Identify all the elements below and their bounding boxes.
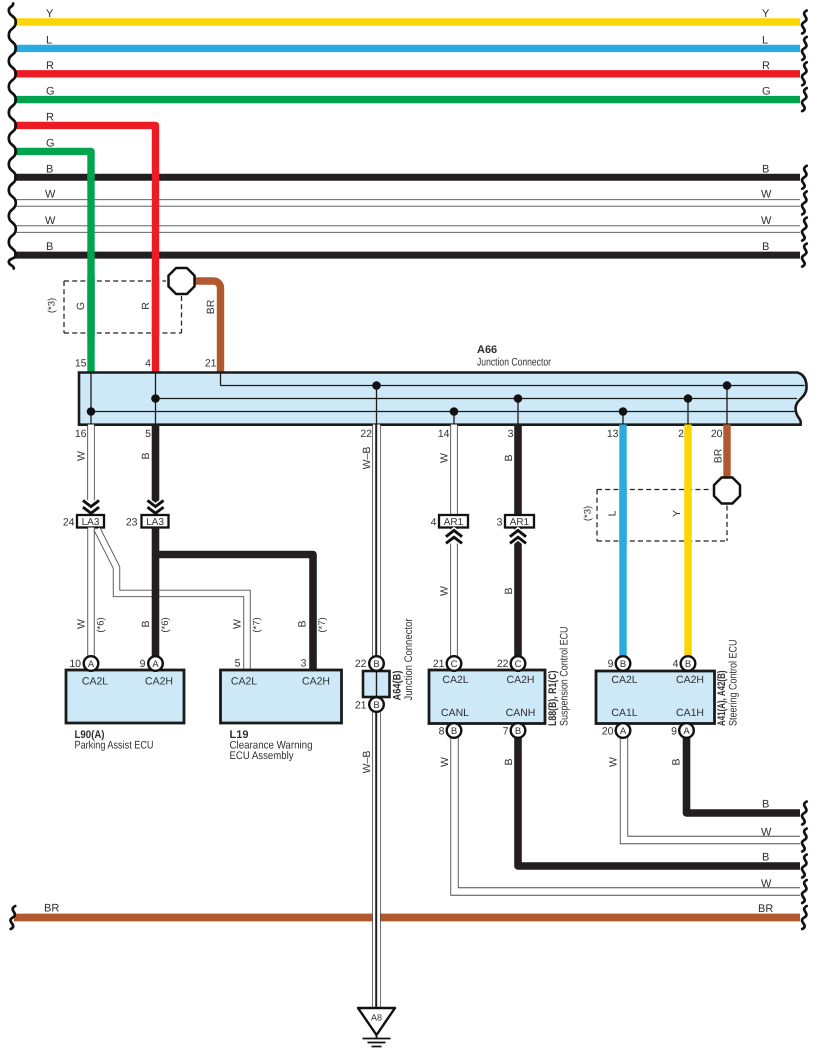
svg-text:B: B	[503, 454, 515, 461]
dashed box (*3) left	[64, 281, 182, 333]
wire Y over dashed box	[684, 486, 691, 545]
svg-text:B: B	[373, 700, 379, 711]
svg-text:A: A	[683, 726, 690, 737]
svg-text:20: 20	[711, 428, 723, 440]
svg-text:21: 21	[355, 700, 367, 712]
svg-text:ECU Assembly: ECU Assembly	[230, 750, 294, 762]
torn end B right	[802, 802, 807, 825]
pin circle 8 B	[447, 723, 462, 738]
svg-text:L88(B), R1(C): L88(B), R1(C)	[547, 670, 559, 726]
svg-text:G: G	[75, 302, 87, 310]
svg-text:Y: Y	[46, 8, 54, 20]
A66 internal bus line 2	[156, 398, 798, 400]
svg-text:BR: BR	[205, 299, 217, 314]
svg-text:CA1H: CA1H	[676, 707, 704, 719]
svg-text:4: 4	[145, 358, 151, 370]
wire B bus (upper)	[14, 174, 800, 181]
wire G to junction pin 15	[14, 151, 91, 374]
svg-text:G: G	[46, 137, 55, 149]
A66 stub pin 15/16	[90, 373, 92, 424]
svg-text:23: 23	[126, 517, 138, 529]
svg-text:C: C	[451, 659, 458, 670]
svg-text:Y: Y	[762, 8, 770, 20]
wire G bus	[14, 96, 800, 103]
svg-text:W: W	[439, 453, 451, 463]
svg-text:A: A	[88, 659, 95, 670]
svg-text:(*3): (*3)	[583, 506, 594, 521]
svg-text:4: 4	[431, 517, 437, 529]
svg-text:BR: BR	[44, 903, 59, 915]
junction dot 2	[684, 394, 693, 403]
torn end W right	[802, 829, 807, 852]
svg-text:L: L	[46, 34, 52, 46]
wire W steering pin20 to right	[624, 737, 800, 840]
svg-text:W: W	[76, 451, 88, 461]
svg-text:(*7): (*7)	[317, 617, 328, 632]
svg-text:9: 9	[671, 726, 677, 738]
svg-text:CA2H: CA2H	[302, 676, 330, 688]
svg-text:B: B	[46, 163, 53, 175]
svg-text:B: B	[297, 620, 309, 627]
connector LA3 (23)	[142, 515, 169, 528]
wire B bus (lower)	[14, 252, 800, 259]
pin circle 22 B (A64)	[369, 656, 384, 671]
svg-text:20: 20	[602, 726, 614, 738]
svg-text:3: 3	[497, 517, 503, 529]
svg-text:B: B	[140, 452, 152, 459]
junction dot 20	[723, 381, 732, 390]
ground symbol A8	[358, 1008, 395, 1035]
svg-text:B: B	[503, 587, 515, 594]
svg-text:2: 2	[678, 428, 684, 440]
svg-text:CA2L: CA2L	[442, 674, 468, 686]
svg-text:R: R	[46, 111, 54, 123]
connector AR1 (4)	[439, 515, 468, 528]
ECU box L19	[221, 670, 342, 723]
pin circle 21 C	[447, 656, 462, 671]
svg-text:W: W	[76, 619, 88, 629]
wire R bus	[14, 70, 800, 77]
ECU box L90(A)	[66, 670, 184, 723]
wire BR pin20 to noise filter 2	[723, 425, 730, 478]
svg-text:CA2L: CA2L	[611, 674, 637, 686]
svg-text:7: 7	[503, 726, 509, 738]
A66 stub pin 21	[220, 373, 222, 386]
svg-text:CA2H: CA2H	[145, 676, 173, 688]
wire R over dashed box	[152, 277, 159, 337]
chevrons below AR1 4	[447, 531, 461, 543]
svg-text:B: B	[762, 163, 769, 175]
svg-text:L: L	[607, 510, 619, 516]
junction dot 4/5	[151, 394, 160, 403]
svg-text:A: A	[152, 659, 159, 670]
torn end G right	[802, 88, 807, 111]
svg-text:W: W	[232, 619, 244, 629]
svg-text:9: 9	[140, 658, 146, 670]
svg-text:CANL: CANL	[441, 707, 469, 719]
A66 internal bus line 3	[91, 411, 796, 413]
wire W bus (lower)	[14, 225, 800, 232]
junction dot 3	[514, 394, 523, 403]
svg-text:BR: BR	[713, 448, 725, 463]
svg-text:CA2H: CA2H	[676, 674, 704, 686]
svg-text:B: B	[503, 758, 515, 765]
wire W-B pin22 to A64(B)	[372, 425, 381, 658]
junction dot 13	[619, 407, 628, 416]
wire Y pin2 to steering ECU	[684, 425, 691, 658]
A66 stub pin 2	[687, 399, 689, 425]
wire W LA3(24) to L90 pin 10	[87, 528, 94, 658]
svg-text:(*3): (*3)	[47, 298, 58, 313]
torn end L right	[802, 37, 807, 60]
svg-text:CA2H: CA2H	[506, 674, 534, 686]
svg-text:A: A	[620, 726, 627, 737]
svg-text:W: W	[761, 827, 772, 839]
svg-text:21: 21	[433, 658, 445, 670]
junction connector A64(B) box	[363, 671, 390, 697]
connector AR1 (3)	[505, 515, 534, 528]
pin circle 7 B	[511, 723, 526, 738]
svg-text:A64(B): A64(B)	[392, 670, 404, 700]
svg-text:W: W	[761, 878, 772, 890]
svg-text:4: 4	[673, 658, 679, 670]
svg-text:9: 9	[608, 658, 614, 670]
pin circle 4 B (steer top)	[681, 656, 696, 671]
svg-text:(*7): (*7)	[252, 617, 263, 632]
svg-text:W–B: W–B	[361, 447, 373, 470]
svg-text:5: 5	[235, 658, 241, 670]
svg-text:R: R	[140, 302, 152, 310]
wire Y bus (top)	[14, 18, 800, 25]
svg-text:AR1: AR1	[444, 517, 464, 528]
wire W suspension pin8 to right	[455, 737, 801, 892]
wire L over dashed box	[619, 486, 626, 545]
ECU box A41(A) A42(B)	[596, 671, 715, 724]
A66 stub pin 13	[622, 412, 624, 425]
svg-text:21: 21	[205, 358, 217, 370]
svg-text:8: 8	[439, 726, 445, 738]
svg-text:A41(A), A42(B): A41(A), A42(B)	[716, 670, 728, 726]
svg-text:CA2L: CA2L	[82, 676, 108, 688]
svg-text:W: W	[439, 586, 451, 596]
svg-text:16: 16	[75, 428, 87, 440]
svg-text:(*6): (*6)	[160, 617, 171, 632]
svg-text:13: 13	[607, 428, 619, 440]
torn end R right	[802, 62, 807, 85]
A66 stub pin 22	[376, 386, 378, 425]
wire G over dashed box	[87, 277, 94, 337]
svg-text:Junction Connector: Junction Connector	[403, 618, 415, 700]
svg-text:15: 15	[75, 358, 87, 370]
svg-text:B: B	[46, 241, 53, 253]
chevrons above LA3 23	[149, 501, 163, 513]
wire B LA3(23) to L90 pin 9	[152, 528, 160, 658]
A66 internal bus line 1	[221, 385, 805, 387]
connector LA3 (24)	[77, 515, 104, 528]
torn end B2 right	[802, 244, 807, 267]
svg-text:22: 22	[497, 658, 509, 670]
svg-text:B: B	[671, 758, 683, 765]
chevrons above LA3 24	[84, 501, 98, 513]
svg-text:24: 24	[63, 517, 75, 529]
wire B pin5 to LA3(23)	[152, 425, 160, 516]
torn end BR left	[10, 906, 15, 929]
wire L pin13 to steering ECU	[619, 425, 626, 658]
wire L bus	[14, 45, 800, 52]
svg-text:A8: A8	[371, 1013, 382, 1023]
junction connector A66 body	[79, 373, 807, 425]
torn end wave left (all top buses)	[9, 4, 16, 269]
dashed box (*3) right	[597, 490, 727, 542]
svg-text:3: 3	[301, 658, 307, 670]
svg-text:W: W	[608, 757, 620, 767]
wire BR from noise filter to junction pin 21	[194, 281, 221, 374]
wire W bus (upper)	[14, 199, 800, 206]
chevrons below AR1 3	[511, 531, 525, 543]
noise filter octagon 1	[169, 268, 195, 294]
svg-text:B: B	[140, 620, 152, 627]
torn end W2 right	[802, 880, 807, 903]
svg-text:22: 22	[360, 428, 372, 440]
svg-text:CA1L: CA1L	[611, 707, 637, 719]
wire B pin3 to AR1(3) and ECU	[514, 425, 522, 658]
torn end B2 right	[802, 855, 807, 878]
svg-text:B: B	[451, 726, 457, 737]
junction dot 14	[450, 407, 459, 416]
pin circle 21 B (A64)	[369, 697, 384, 712]
svg-text:5: 5	[145, 428, 151, 440]
pin circle 22 C	[511, 656, 526, 671]
junction dot 15/16	[87, 407, 96, 416]
svg-text:Suspension Control ECU: Suspension Control ECU	[559, 626, 571, 726]
svg-text:G: G	[762, 86, 771, 98]
svg-text:10: 10	[69, 658, 81, 670]
svg-text:C: C	[515, 659, 522, 670]
svg-text:B: B	[620, 659, 626, 670]
svg-text:3: 3	[508, 428, 514, 440]
wire B suspension pin7 to right	[518, 737, 800, 866]
A66 stub pin 20	[726, 386, 728, 425]
svg-text:R: R	[46, 60, 54, 72]
ECU box L88(B) R1(C)	[429, 670, 545, 724]
svg-text:B: B	[685, 659, 691, 670]
A66 stub pin 14	[453, 412, 455, 425]
torn end W1 right	[802, 191, 807, 214]
torn end Y right	[802, 11, 807, 34]
svg-text:B: B	[762, 799, 769, 811]
wire R to junction pin 4	[14, 125, 156, 374]
svg-text:W: W	[761, 189, 772, 201]
svg-text:R: R	[762, 60, 770, 72]
torn end BR right	[802, 906, 807, 929]
svg-text:AR1: AR1	[510, 517, 530, 528]
wire B steering pin9 to right	[687, 737, 801, 813]
noise filter octagon 2	[714, 478, 740, 504]
wire BR bus (bottom)	[14, 914, 800, 922]
pin circle 9 A (steer bottom)	[679, 723, 694, 738]
svg-text:BR: BR	[758, 903, 773, 915]
svg-text:W: W	[439, 757, 451, 767]
svg-text:B: B	[762, 852, 769, 864]
pin circle 20 A	[616, 723, 631, 738]
svg-text:14: 14	[438, 428, 450, 440]
svg-text:Steering Control ECU: Steering Control ECU	[728, 639, 740, 726]
svg-text:LA3: LA3	[82, 517, 100, 528]
svg-text:B: B	[373, 659, 379, 670]
svg-text:Y: Y	[671, 510, 683, 517]
svg-text:22: 22	[355, 658, 367, 670]
svg-text:Parking Assist ECU: Parking Assist ECU	[75, 740, 154, 752]
svg-text:G: G	[46, 86, 55, 98]
wire W branch LA3(24) to L19 pin 5	[97, 529, 247, 670]
A66 stub pin 3	[517, 399, 519, 425]
svg-text:CA2L: CA2L	[231, 676, 257, 688]
svg-text:W–B: W–B	[361, 751, 373, 774]
svg-text:L: L	[762, 34, 768, 46]
svg-text:A66: A66	[477, 344, 497, 356]
wire W-B A64 to ground A8	[372, 712, 381, 1009]
A66 stub pin 4/5	[155, 373, 157, 424]
pin circle 10 A	[84, 656, 99, 671]
svg-text:W: W	[45, 189, 56, 201]
svg-text:CANH: CANH	[506, 707, 536, 719]
wire W pin14 to AR1(4) and ECU	[450, 425, 458, 658]
wire W pin16 to LA3(24)	[87, 425, 95, 516]
svg-text:B: B	[762, 241, 769, 253]
svg-text:(*6): (*6)	[96, 617, 107, 632]
junction dot 22	[372, 381, 381, 390]
svg-text:W: W	[761, 215, 772, 227]
svg-text:Junction Connector: Junction Connector	[477, 357, 551, 369]
pin circle 9 A	[148, 656, 163, 671]
torn end B1 right	[802, 166, 807, 189]
wire B branch LA3(23) to L19 pin 3	[156, 555, 314, 671]
svg-text:B: B	[515, 726, 521, 737]
svg-text:W: W	[45, 215, 56, 227]
torn end W2 right	[802, 218, 807, 241]
pin circle 9 B (steer top)	[616, 656, 631, 671]
svg-text:LA3: LA3	[146, 517, 164, 528]
